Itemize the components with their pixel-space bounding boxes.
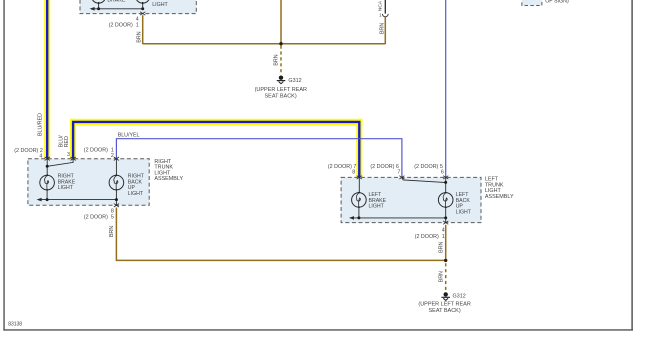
node: junction dot bus left (right box) (46, 198, 49, 201)
svg-text:SEAT BACK): SEAT BACK) (428, 308, 460, 314)
wire: lamp bottoms to bus (right box) (47, 190, 116, 205)
svg-text:3: 3 (67, 152, 70, 158)
svg-text:BRN: BRN (438, 271, 444, 282)
connector symbol (in-line) with pin 1 (379, 12, 388, 17)
svg-text:RED: RED (64, 136, 70, 147)
svg-text:7: 7 (397, 169, 400, 175)
pin symbol 8 (right box bottom) (114, 204, 119, 207)
label LEFT BACK UP LIGHT (456, 192, 472, 215)
svg-text:(2 DOOR) 5: (2 DOOR) 5 (84, 215, 114, 221)
pin symbol 4 (left box bottom) (443, 221, 448, 224)
wire BRN horizontal bus lower (116, 259, 445, 261)
node: junction dot top box right (141, 7, 144, 10)
svg-text:BRN: BRN (109, 226, 115, 237)
ground G312 (lower) (441, 292, 450, 300)
wire: pin 7 diagonal to junction (left box) (402, 178, 445, 183)
svg-text:BRAKE: BRAKE (107, 0, 125, 4)
wire: bottom ground bus (left box) (349, 216, 446, 220)
svg-text:(UPPER LEFT REAR: (UPPER LEFT REAR (418, 302, 470, 308)
wire BRN from connector down to bus (384, 17, 386, 44)
svg-text:BRN: BRN (137, 31, 143, 42)
pin symbol 6 (left box) (443, 176, 448, 179)
svg-text:LIGHT: LIGHT (128, 191, 144, 197)
frame border right (631, 0, 632, 331)
svg-text:ASSEMBLY: ASSEMBLY (485, 194, 514, 200)
node: junction dot (right box) (46, 165, 49, 168)
lamp: RIGHT BRAKE LIGHT (40, 174, 55, 190)
svg-text:(2 DOOR) 1: (2 DOOR) 1 (84, 148, 114, 154)
wire BRN from right box down (115, 208, 117, 262)
label RIGHT BACK UP LIGHT (128, 174, 145, 197)
wire BRN vertical from top edge (280, 0, 282, 44)
svg-text:(2 DOOR) 1: (2 DOOR) 1 (415, 234, 445, 240)
svg-text:LIGHT: LIGHT (456, 210, 472, 216)
wire: bottom ground bus (right box) (37, 198, 117, 202)
node: junction dot bus right (left box) (444, 216, 447, 219)
svg-text:83138: 83138 (8, 321, 22, 327)
label LEFT TRUNK LIGHT ASSEMBLY (485, 177, 514, 200)
right trunk light assembly box (28, 159, 149, 206)
svg-text:(2 DOOR) 6: (2 DOOR) 6 (370, 164, 399, 170)
svg-text:LIGHT: LIGHT (58, 185, 74, 191)
label LEFT BRAKE LIGHT (369, 192, 387, 210)
svg-text:G312: G312 (453, 294, 466, 300)
label RIGHT BRAKE LIGHT (58, 174, 76, 192)
label RIGHT TRUNK LIGHT ASSEMBLY (154, 159, 183, 182)
wire: pin 8 to lamp (left box) (358, 177, 360, 192)
wire BLU/RED highlighted bus (horizontal + both verticals) (70, 119, 362, 178)
svg-text:BLU/YEL: BLU/YEL (118, 132, 140, 138)
svg-text:BRN: BRN (438, 242, 444, 253)
lamp: LEFT BRAKE LIGHT (352, 192, 367, 208)
ground lead (dashed BRN) to G312 upper (280, 46, 282, 75)
pin symbol at top box exit (140, 12, 145, 15)
wire NCA black line top (384, 0, 386, 14)
ground G312 (upper) (277, 76, 286, 84)
wire: pin 3 stub and diagonal to junction (48, 159, 73, 167)
pin symbol 8 (left box) (357, 176, 362, 179)
wire BLU/YEL (116, 139, 402, 178)
frame border left (3, 0, 4, 331)
wire: lamp bottoms to bus (left box) (359, 207, 446, 222)
svg-text:(2 DOOR) 5: (2 DOOR) 5 (414, 164, 443, 170)
wire: pin 6 to lamp (left box) (445, 177, 447, 192)
label (UPPER LEFT REAR SEAT BACK) lower (418, 302, 470, 314)
svg-text:8: 8 (352, 169, 355, 175)
left trunk light assembly box (341, 177, 481, 222)
label (UPPER LEFT REAR SEAT BACK) upper (255, 87, 307, 99)
wire BLU/RED highlighted (left vertical, circuit trace) (44, 0, 50, 159)
node: junction dot top box left (97, 7, 100, 10)
wire BLU long vertical to pin 6 (445, 0, 447, 177)
lamp (partial) left bulb of top box (91, 0, 106, 9)
svg-text:8: 8 (111, 208, 114, 214)
pin symbol 7 (left box) (399, 176, 404, 179)
svg-text:NCA: NCA (377, 0, 383, 11)
node: junction dot bus left (left box) (357, 216, 360, 219)
svg-text:(UPPER LEFT REAR: (UPPER LEFT REAR (255, 87, 307, 93)
svg-text:G312: G312 (288, 78, 301, 84)
wire: interior ground bus of top box (90, 7, 143, 11)
label: LIGHT (top box) with clipped line above (152, 0, 168, 8)
node: junction dot bus right (right box) (115, 198, 118, 201)
svg-text:ASSEMBLY: ASSEMBLY (154, 176, 183, 182)
pin symbol 4 (right box) (45, 157, 50, 160)
top right partial connector box (522, 0, 542, 6)
lamp: RIGHT BACK UP LIGHT (109, 174, 124, 190)
wire BRN from top box down (142, 15, 144, 44)
svg-text:BRN: BRN (274, 54, 280, 65)
svg-text:4: 4 (442, 228, 445, 234)
svg-text:OF SIGN): OF SIGN) (545, 0, 569, 4)
pin symbol 3 (right box) (71, 157, 76, 160)
node: junction dot on lower BRN bus (444, 259, 447, 262)
pin symbol 2 (right box) (114, 157, 119, 160)
lamp (partial) right bulb of top box (135, 0, 150, 9)
rear combination light assembly box (partial, cut at top) (80, 0, 196, 14)
ground lead (dashed BRN) to G312 lower (445, 263, 447, 290)
wire: pin 2 to lamp (right box) (115, 159, 117, 176)
frame border bottom (3, 329, 632, 330)
svg-text:6: 6 (441, 169, 444, 175)
svg-text:LIGHT: LIGHT (152, 2, 168, 8)
node: junction dot on BRN bus (279, 42, 282, 45)
node: junction dot (left box) (444, 181, 447, 184)
svg-text:LIGHT: LIGHT (369, 204, 385, 210)
wire BRN from left box down (445, 225, 447, 261)
svg-text:(2 DOOR) 1: (2 DOOR) 1 (109, 23, 139, 29)
svg-text:SEAT BACK): SEAT BACK) (264, 94, 296, 100)
svg-text:2: 2 (111, 153, 114, 159)
svg-text:BLU/RED: BLU/RED (38, 113, 44, 136)
wire: pin 4 to junction (right box) (46, 159, 48, 176)
lamp: LEFT BACK UP LIGHT (438, 192, 453, 208)
wire BRN horizontal bus upper (143, 43, 386, 45)
